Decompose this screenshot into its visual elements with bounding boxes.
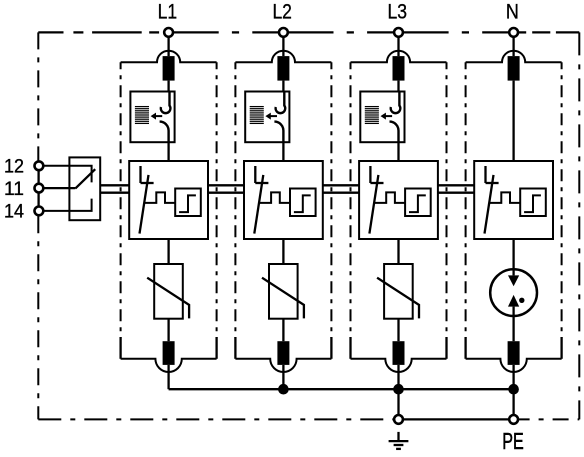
wire terminal 12 to fixed contact <box>44 166 92 183</box>
wire L2 terminal to top electrode <box>282 37 284 56</box>
module L1 dashed side left <box>120 62 122 338</box>
trigger box module L3 <box>405 189 431 217</box>
svg-text:L3: L3 <box>388 0 408 24</box>
module L3 solid corner riser right <box>445 337 447 359</box>
svg-text:11: 11 <box>4 178 24 200</box>
module N top edge with crossing arc <box>466 51 562 63</box>
terminal circle 12 <box>35 161 44 170</box>
enclosure dashed border right <box>578 32 580 419</box>
module L1 dashed side right <box>216 62 218 338</box>
module L3 top edge with crossing arc <box>351 51 447 63</box>
module L2 dashed side right <box>330 62 332 338</box>
bottom terminal electrode block module L3 <box>393 341 405 365</box>
trigger box module N <box>520 189 546 217</box>
wire indicator box to switch box module L1 <box>167 142 169 161</box>
module L3 solid corner riser left <box>349 337 351 359</box>
wire L1 terminal to top electrode <box>167 37 169 56</box>
module N solid corner riser right <box>560 337 562 359</box>
wire varistor to bottom electrode module L1 <box>167 319 169 342</box>
module L1 solid corner riser left <box>119 337 121 359</box>
wire electrode to disconnector indicator module L2 <box>282 81 284 92</box>
remote signalling changeover contact box K1 <box>69 157 100 220</box>
module L3 dashed side left <box>350 62 352 338</box>
top terminal electrode block module N <box>508 56 520 81</box>
wire bottom border solid run between earth and PE terminals <box>394 418 514 420</box>
varistor diagonal module L3 <box>377 278 419 319</box>
spark gap circle module N <box>490 269 537 316</box>
spark gap dot module N <box>519 298 524 303</box>
wire bottom electrode to PE bus module L1 <box>167 365 169 389</box>
module L2 solid corner riser right <box>330 337 332 359</box>
earth terminal circle <box>394 415 403 424</box>
module L3 bottom edge with crossing arc <box>351 359 447 372</box>
wire electrode to switch box module N <box>512 81 514 161</box>
switching element box module L1 <box>129 161 208 239</box>
switch contact tick module L3 <box>370 182 383 184</box>
module N dashed side right <box>561 62 563 338</box>
wire terminal 11 to contact pivot <box>44 187 76 189</box>
switch blade of changeover contact <box>75 169 95 188</box>
indicator window hatch module L2 <box>250 107 264 124</box>
switch contact tick module L1 <box>141 182 154 184</box>
indicator arrow module L1 <box>156 115 163 117</box>
switch blade module L1 <box>140 175 149 234</box>
indicator arrow module L3 <box>386 115 393 117</box>
module L1 bottom edge with crossing arc <box>121 359 217 372</box>
wire N terminal to top electrode <box>512 37 514 56</box>
junction dot PE bus module L3 <box>393 384 404 395</box>
wire lower bus segment module L3 to module N <box>438 192 474 194</box>
top terminal electrode block module L2 <box>277 56 289 81</box>
disconnector upper contact hook module L3 <box>391 92 401 114</box>
step function symbol module L2 <box>294 195 311 212</box>
varistor diagonal module L2 <box>262 278 304 319</box>
wire upper bus segment module L1 to module L2 <box>208 184 244 186</box>
trigger connection staircase module L1 <box>144 192 175 203</box>
step function symbol module N <box>524 195 541 212</box>
spark gap upper electrode arrow module N <box>508 275 519 286</box>
wire bottom electrode to PE bus module L2 <box>282 365 284 389</box>
disconnector lower contact hook module L2 <box>274 122 283 143</box>
node N terminal circle <box>509 28 518 37</box>
wire bottom electrode to PE bus module N <box>512 365 514 389</box>
bottom terminal electrode block module L1 <box>163 341 175 365</box>
thermal disconnector indicator box module L3 <box>360 92 404 143</box>
svg-text:L1: L1 <box>158 0 178 24</box>
PE terminal circle <box>509 415 518 424</box>
wire upper bus segment remote box to module L1 <box>100 184 129 186</box>
wire switch box to varistor module L1 <box>167 239 169 264</box>
svg-text:L2: L2 <box>272 0 292 24</box>
svg-text:14: 14 <box>4 201 24 223</box>
bottom terminal electrode block module N <box>508 341 520 365</box>
module L1 top edge with crossing arc <box>121 51 217 63</box>
switching element box module L3 <box>359 161 438 239</box>
node L2 terminal circle <box>279 28 288 37</box>
ground symbol bar 3 <box>396 448 401 450</box>
indicator window hatch module L3 <box>365 107 379 124</box>
switching element box module N <box>474 161 553 239</box>
module L2 bottom edge with crossing arc <box>235 359 331 372</box>
disconnector upper contact hook module L2 <box>276 92 286 114</box>
spark gap lower electrode arrow module N <box>508 295 519 307</box>
terminal circle 11 <box>35 184 44 193</box>
wire terminal 14 to open contact <box>44 199 92 211</box>
switch blade module L2 <box>254 175 263 234</box>
junction dot PE bus module N <box>508 384 519 395</box>
top terminal electrode block module L3 <box>393 56 405 81</box>
enclosure dashed border left lower part <box>37 216 39 419</box>
switch fixed contact stub module L3 <box>369 166 371 183</box>
enclosure dashed border top (explicit dash-dot segments) <box>38 31 579 33</box>
thermal disconnector indicator box module L1 <box>130 92 174 143</box>
wire PE bus down to PE terminal <box>512 389 514 414</box>
switch fixed contact stub module L1 <box>139 166 141 183</box>
disconnector upper contact hook module L1 <box>161 92 171 114</box>
switch contact tick module L2 <box>255 182 268 184</box>
wire electrode to disconnector indicator module L3 <box>397 81 399 92</box>
step function symbol module L3 <box>409 195 426 212</box>
module L2 solid corner riser left <box>234 337 236 359</box>
svg-text:PE: PE <box>502 428 524 454</box>
trigger connection staircase module L2 <box>259 192 290 203</box>
module N dashed side left <box>465 62 467 338</box>
wire indicator box to switch box module L2 <box>282 142 284 161</box>
varistor module L3 <box>384 264 413 319</box>
node L3 terminal circle <box>394 28 403 37</box>
enclosure dashed border bottom right part <box>514 418 580 420</box>
wire switch box to varistor module L2 <box>282 239 284 264</box>
enclosure dashed border bottom left part <box>38 418 393 420</box>
trigger box module L2 <box>290 189 316 217</box>
switch contact tick module N <box>486 182 499 184</box>
disconnector lower contact hook module L1 <box>160 122 169 143</box>
switching element box module L2 <box>244 161 323 239</box>
trigger box module L1 <box>175 189 201 217</box>
wire upper bus segment module L2 to module L3 <box>323 184 359 186</box>
indicator window hatch module L1 <box>135 107 149 124</box>
step function symbol module L1 <box>179 195 196 212</box>
svg-text:N: N <box>506 0 519 24</box>
switch fixed contact stub module L2 <box>254 166 256 183</box>
enclosure dashed border left upper part <box>37 32 39 160</box>
bottom terminal electrode block module L2 <box>277 341 289 365</box>
trigger connection staircase module N <box>489 192 520 203</box>
wire lower bus segment module L2 to module L3 <box>323 192 359 194</box>
wire spark gap to bottom electrode module N <box>512 307 514 342</box>
wire PE bus down to earth terminal <box>397 389 399 414</box>
module L1 solid corner riser right <box>215 337 217 359</box>
terminal circle 14 <box>35 207 44 216</box>
wire indicator box to switch box module L3 <box>397 142 399 161</box>
switch fixed contact stub module N <box>484 166 486 183</box>
module L3 dashed side right <box>446 62 448 338</box>
wire bottom electrode to PE bus module L3 <box>397 365 399 389</box>
top terminal electrode block module L1 <box>163 56 175 81</box>
wire varistor to bottom electrode module L2 <box>282 319 284 342</box>
module N solid corner riser left <box>464 337 466 359</box>
thermal disconnector indicator box module L2 <box>245 92 289 143</box>
wire upper bus segment module L3 to module N <box>438 184 474 186</box>
trigger connection staircase module L3 <box>374 192 405 203</box>
indicator arrow module L2 <box>270 115 277 117</box>
ground symbol bar 2 <box>394 444 404 446</box>
ground symbol stem <box>397 432 399 441</box>
switch blade module N <box>485 175 494 234</box>
module N bottom edge with crossing arc <box>466 359 562 372</box>
wire left border solid run between terminals 12-11-14 <box>37 166 39 211</box>
wire lower bus segment remote box to module L1 <box>100 192 129 194</box>
varistor diagonal module L1 <box>147 278 189 319</box>
switch blade module L3 <box>369 175 378 234</box>
wire varistor to bottom electrode module L3 <box>397 319 399 342</box>
junction dot PE bus module L2 <box>278 384 289 395</box>
node L1 terminal circle <box>164 28 173 37</box>
disconnector lower contact hook module L3 <box>390 122 399 143</box>
module L2 dashed side left <box>234 62 236 338</box>
module L2 top edge with crossing arc <box>235 51 331 63</box>
wire switch box to spark gap module N <box>512 239 514 275</box>
wire electrode to disconnector indicator module L1 <box>167 81 169 92</box>
wire L3 terminal to top electrode <box>397 37 399 56</box>
varistor module L2 <box>269 264 298 319</box>
wire lower bus segment module L1 to module L2 <box>208 192 244 194</box>
svg-text:12: 12 <box>4 156 24 178</box>
wire PE collecting bus <box>169 388 514 390</box>
varistor module L1 <box>154 264 183 319</box>
wire switch box to varistor module L3 <box>397 239 399 264</box>
ground symbol bar 1 <box>389 440 409 442</box>
